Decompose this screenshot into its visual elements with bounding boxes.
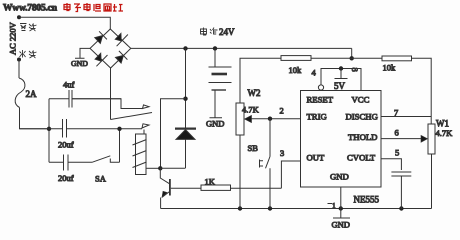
svg-text:4.7K: 4.7K bbox=[242, 105, 260, 115]
wire: bridge + output bus 24V bbox=[131, 47, 352, 49]
svg-text:2A: 2A bbox=[26, 89, 38, 99]
svg-text:20uf: 20uf bbox=[58, 173, 74, 183]
switch SB (push button) bbox=[260, 119, 271, 209]
capacitor bank left bus bbox=[48, 99, 50, 163]
label 电池 24V bbox=[201, 28, 218, 36]
label GND (555) bbox=[332, 220, 350, 230]
label 2A bbox=[26, 89, 38, 99]
node: 10k junction bbox=[350, 56, 354, 60]
svg-text:1K: 1K bbox=[205, 177, 216, 187]
capacitor C5 bbox=[391, 172, 411, 209]
pin label 6 bbox=[395, 128, 399, 138]
switch SA bbox=[92, 156, 120, 163]
svg-text:GND: GND bbox=[206, 119, 224, 129]
label GND (bridge) bbox=[71, 59, 88, 68]
svg-text:4.7K: 4.7K bbox=[436, 128, 454, 138]
svg-text:5: 5 bbox=[395, 148, 399, 158]
svg-text:6: 6 bbox=[395, 128, 399, 138]
label 火线 (live) bbox=[20, 50, 37, 58]
fuse 2A bbox=[15, 78, 25, 108]
pin 7 DISCHG wire bbox=[381, 116, 431, 118]
svg-text:SA: SA bbox=[95, 174, 107, 184]
ground bus bbox=[161, 208, 432, 210]
resistor R2 10k (left) bbox=[240, 56, 352, 103]
wire: collector node to diode branch bbox=[160, 167, 185, 169]
svg-text:4uf: 4uf bbox=[63, 80, 75, 90]
node: neutral terminal bbox=[17, 15, 21, 19]
pin label 1 bbox=[328, 201, 337, 210]
label SB bbox=[248, 143, 259, 153]
battery B1 24V bbox=[209, 48, 232, 117]
svg-text:RESET: RESET bbox=[307, 94, 334, 104]
bridge diode D2 (upper-right) bbox=[115, 33, 128, 46]
title hanzi 电子电路图站 bbox=[64, 3, 123, 12]
node: W2 bottom on bus bbox=[238, 206, 242, 210]
relay contact blade bbox=[111, 113, 153, 120]
pin label 4 bbox=[312, 68, 317, 78]
AC 220V label bbox=[8, 21, 18, 55]
label NE555 bbox=[354, 195, 380, 205]
svg-text:TRIG: TRIG bbox=[307, 112, 327, 122]
transistor VT (NPN) bbox=[160, 168, 170, 208]
label 5V bbox=[334, 81, 346, 91]
label 4uf bbox=[63, 80, 75, 90]
svg-text:GND: GND bbox=[71, 59, 88, 68]
bridge diode D1 (upper-left) bbox=[95, 31, 107, 43]
svg-text:Www.7805.cn: Www.7805.cn bbox=[3, 4, 58, 14]
svg-text:W2: W2 bbox=[248, 88, 261, 98]
label 4.7K (W1) bbox=[436, 128, 454, 138]
node at diode top tap bbox=[183, 97, 187, 101]
relay contact upper throw bbox=[72, 99, 149, 109]
node: IC GND on bus bbox=[339, 206, 343, 210]
node on bus at battery bbox=[213, 46, 217, 50]
svg-text:2: 2 bbox=[280, 106, 284, 116]
wire: diode top tap to left vertical bbox=[161, 99, 186, 168]
node at contact/cap junction bbox=[117, 127, 121, 131]
wire: bus down to diode/collector branch bbox=[185, 48, 187, 128]
svg-text:OUT: OUT bbox=[307, 153, 326, 163]
svg-text:3: 3 bbox=[280, 148, 284, 158]
svg-text:1: 1 bbox=[332, 201, 336, 210]
capacitor C3 20uf bbox=[49, 155, 92, 171]
svg-text:VCC: VCC bbox=[352, 94, 370, 104]
wire: bridge left corner to GND bbox=[75, 48, 90, 58]
capacitor C1 4uf bbox=[49, 90, 121, 108]
node on bus at diode branch bbox=[183, 46, 187, 50]
relay coil K bbox=[133, 130, 161, 175]
svg-text:CVOLT: CVOLT bbox=[347, 153, 376, 163]
node: TRIG junction bbox=[268, 117, 272, 121]
label SA bbox=[95, 174, 107, 184]
potentiometer W2 bbox=[236, 103, 301, 209]
wire: neutral to bridge top bbox=[19, 17, 110, 29]
label 4.7K (W2) bbox=[242, 105, 260, 115]
resistor R1 1K bbox=[171, 185, 282, 190]
wire: live down to fuse bbox=[18, 60, 20, 79]
bridge diode D4 (lower-right) bbox=[116, 51, 128, 63]
svg-text:GND: GND bbox=[330, 172, 349, 182]
svg-text:8: 8 bbox=[350, 68, 360, 72]
node: cap C5 on bus bbox=[399, 206, 403, 210]
label GND (battery) bbox=[206, 119, 224, 129]
resistor R3 10k (right) bbox=[352, 56, 432, 124]
bridge rectifier outline bbox=[90, 29, 131, 68]
node: SB bottom on bus bbox=[268, 206, 272, 210]
svg-text:24V: 24V bbox=[219, 27, 235, 37]
svg-text:THOLD: THOLD bbox=[348, 132, 377, 142]
label W2 bbox=[248, 88, 261, 98]
pin 4 reset circle and riser bbox=[318, 69, 361, 91]
svg-text:20uf: 20uf bbox=[58, 140, 74, 150]
pin label 2 bbox=[280, 106, 284, 116]
bridge diode D3 (lower-left) bbox=[95, 53, 107, 66]
svg-text:SB: SB bbox=[248, 143, 259, 153]
wire: bridge bottom to contact pivot bbox=[110, 68, 112, 120]
wire: OUT pin3 down to 1K line bbox=[281, 161, 300, 188]
node: collector junction bbox=[158, 166, 162, 170]
IC GND pin wire bbox=[333, 187, 350, 218]
wire: SA branch up to contact node bbox=[119, 129, 121, 163]
svg-text:5V: 5V bbox=[334, 81, 346, 91]
svg-text:10k: 10k bbox=[289, 65, 303, 75]
label 零线 (neutral) bbox=[20, 24, 37, 32]
label 10k (right) bbox=[383, 63, 397, 73]
node: live terminal bbox=[17, 58, 21, 62]
relay contact lower throw bbox=[120, 124, 150, 129]
svg-text:10k: 10k bbox=[383, 63, 397, 73]
svg-text:GND: GND bbox=[332, 220, 350, 230]
pin 5 CVOLT wire bbox=[381, 159, 401, 170]
svg-text:NE555: NE555 bbox=[354, 195, 380, 205]
potentiometer W1 bbox=[381, 124, 435, 209]
label 20uf (C2) bbox=[58, 140, 74, 150]
svg-text:DISCHG: DISCHG bbox=[346, 112, 378, 122]
diode VD (flyback, cathode up) bbox=[175, 129, 196, 168]
label 10k (left) bbox=[289, 65, 303, 75]
5V supply symbol bbox=[335, 69, 348, 79]
node at cap bus bbox=[47, 127, 51, 131]
pin label 3 bbox=[280, 148, 284, 158]
label 1K bbox=[205, 177, 216, 187]
svg-text:AC 220V: AC 220V bbox=[8, 21, 18, 55]
label 20uf (C3) bbox=[58, 173, 74, 183]
capacitor C2 20uf bbox=[20, 119, 120, 138]
IC U1 NE555 bbox=[301, 91, 382, 188]
node: 5V tap bbox=[339, 66, 343, 70]
title www.7805.cn bbox=[3, 4, 58, 14]
wire: fuse to cap bus bbox=[20, 108, 50, 129]
wire: bus1 to 10k line bbox=[351, 48, 353, 58]
label W1 bbox=[436, 119, 449, 129]
pin label 5 bbox=[395, 148, 399, 158]
pin label 8 bbox=[350, 68, 360, 72]
svg-text:4: 4 bbox=[312, 68, 317, 78]
svg-text:7: 7 bbox=[394, 108, 398, 118]
pin label 7 bbox=[394, 108, 398, 118]
